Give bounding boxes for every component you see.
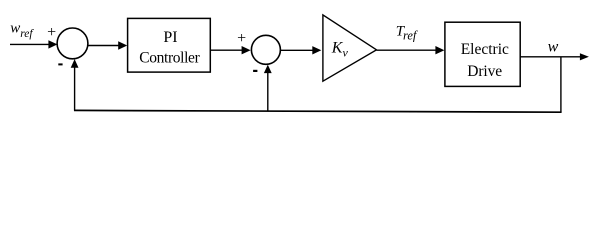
wire feedback to S2 with arrowhead (264, 65, 272, 112)
wire input to summing junction S1 (10, 40, 57, 48)
wire feedback bottom horizontal (74, 110, 562, 112)
wire S2 to gain Kv (281, 46, 322, 54)
wire Kv to Electric Drive (377, 46, 445, 54)
gain Kv triangle (323, 15, 377, 81)
block Electric Drive (445, 22, 520, 86)
wire S1 to PI controller (88, 41, 127, 49)
svg-text:+: + (47, 24, 56, 41)
wire feedback tap vertical (560, 57, 562, 112)
svg-text:PI: PI (163, 29, 177, 46)
wire output w (520, 53, 589, 60)
svg-text:Drive: Drive (467, 63, 502, 80)
minus sign at S1 (58, 63, 62, 65)
svg-text:Electric: Electric (461, 41, 509, 58)
summing junction S2 (251, 35, 280, 64)
svg-text:Controller: Controller (139, 50, 200, 67)
svg-text:w: w (548, 39, 559, 56)
svg-text:+: + (237, 30, 246, 47)
wire PI controller to summing junction S2 (210, 46, 250, 54)
summing junction S1 (57, 28, 88, 59)
svg-text:wref: wref (10, 21, 34, 40)
minus sign at S2 (253, 70, 257, 72)
block PI controller (128, 18, 211, 72)
svg-text:Tref: Tref (396, 23, 418, 42)
wire feedback to S1 with arrowhead (71, 59, 79, 111)
